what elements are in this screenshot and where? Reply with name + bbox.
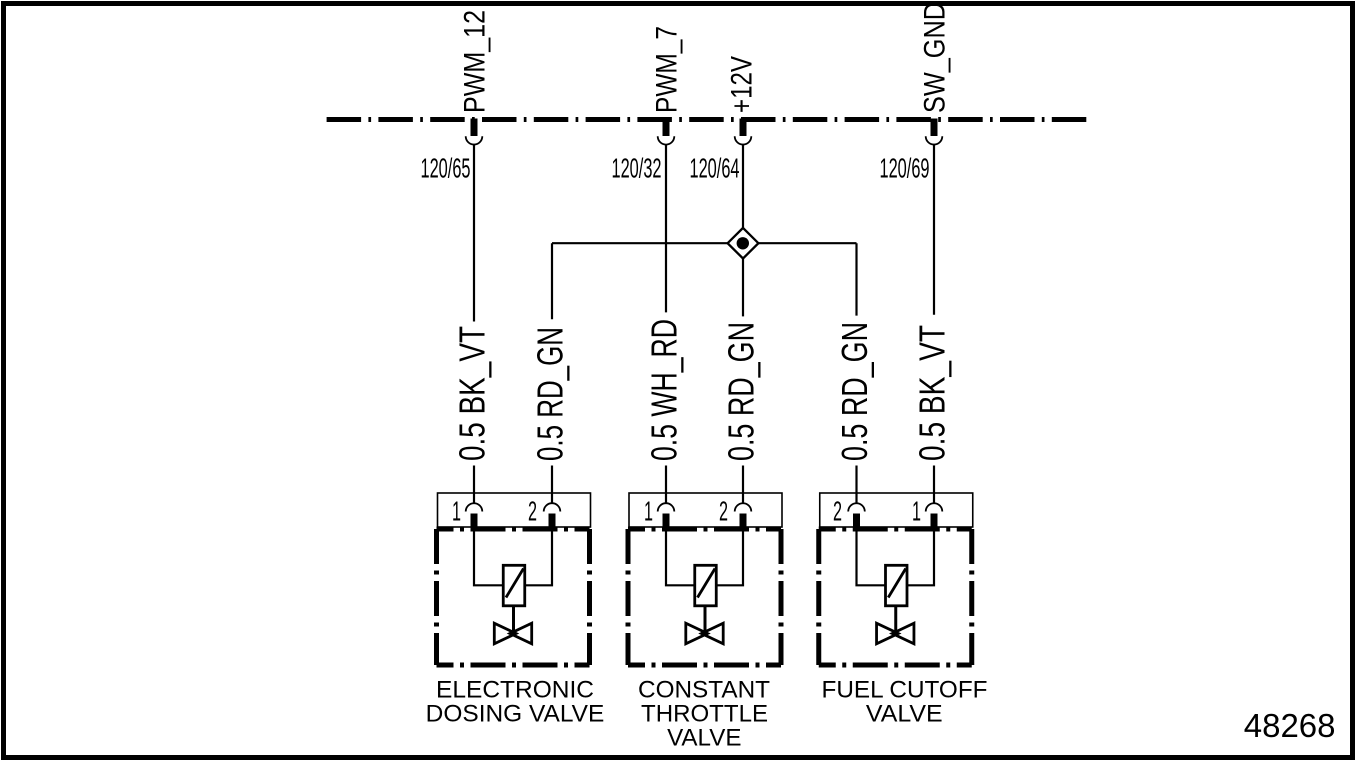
valve 2 pin 2 socket and blade	[735, 503, 752, 531]
valve 3 solenoid coil	[886, 565, 908, 606]
wire W4 +12V upper segment to junction	[742, 145, 744, 228]
valve 3 pin 1 socket and blade	[926, 503, 943, 531]
ECU connector pin 120/65 (blade and socket)	[466, 119, 483, 145]
wire W3 PWM_7 upper segment	[665, 145, 667, 313]
valve 1 solenoid coil	[503, 565, 525, 606]
node SW_GND label	[919, 2, 952, 113]
wire W4 label 0.5 RD_GN	[721, 322, 762, 461]
valve 1 pin 2 socket and blade	[544, 503, 561, 531]
valve 2 stem	[704, 606, 707, 634]
branch wire left from junction to W2	[552, 242, 728, 244]
svg-text:VALVE: VALVE	[667, 725, 741, 752]
valve 2 solenoid coil	[695, 565, 717, 606]
valve 3 butterfly valve symbol	[877, 623, 914, 644]
wire W2 lower segment	[551, 466, 553, 504]
valve 3 pin 2 socket and blade	[848, 503, 865, 531]
svg-text:+12V: +12V	[726, 56, 759, 113]
valve 3 internal wire pin1 to coil	[907, 531, 934, 585]
svg-text:1: 1	[912, 496, 921, 527]
branch wire right from junction to W5	[758, 242, 856, 244]
wire W6 label 0.5 BK_VT	[912, 325, 953, 461]
valve 1 pin 1 label	[452, 496, 461, 527]
wire W5 branch vertical upper segment	[855, 243, 857, 315]
valve 2 butterfly valve symbol	[686, 623, 723, 644]
valve 2 pin 2 label	[719, 496, 728, 527]
svg-text:120/64: 120/64	[690, 153, 740, 184]
valve 1 butterfly valve symbol	[494, 623, 531, 644]
valve 3 internal wire pin2 to coil	[857, 531, 886, 585]
valve 3 caption	[822, 677, 988, 728]
valve 2 pin 1 socket and blade	[658, 503, 675, 531]
valve 1 pin 1 socket and blade	[466, 503, 483, 531]
wire W3 lower segment	[665, 466, 667, 504]
valve 2 caption	[638, 677, 770, 752]
valve 1 stem	[512, 606, 515, 634]
valve 2 pin 1 label	[644, 496, 653, 527]
ECU connector pin 120/32 (blade and socket)	[658, 119, 675, 145]
svg-text:PWM_7: PWM_7	[651, 26, 684, 113]
wire W1 label 0.5 BK_VT	[452, 326, 493, 461]
valve 2 internal wire pin2 to coil	[716, 531, 743, 585]
pin label 120/64	[690, 153, 740, 184]
ECU connector pin 120/69 (blade and socket)	[926, 119, 943, 145]
svg-text:2: 2	[528, 496, 537, 527]
svg-text:0.5 BK_VT: 0.5 BK_VT	[912, 325, 953, 461]
svg-text:FUEL CUTOFF: FUEL CUTOFF	[822, 677, 988, 704]
svg-text:2: 2	[719, 496, 728, 527]
valve 1 dash-dot enclosure box	[437, 529, 590, 665]
wire W4 lower segment	[742, 466, 744, 504]
pin label 120/69	[880, 153, 930, 184]
node +12V label	[726, 56, 759, 113]
wire W5 lower segment	[855, 466, 857, 504]
ECU module boundary dash-dot line	[327, 117, 1087, 122]
node PWM_7 label	[651, 26, 684, 113]
svg-text:VALVE: VALVE	[866, 701, 943, 728]
wire W2 label 0.5 RD_GN	[530, 327, 571, 461]
wire W6 SW_GND upper segment	[933, 145, 935, 315]
node PWM_12 label	[459, 10, 492, 113]
svg-text:2: 2	[833, 496, 842, 527]
valve 1 connector strip	[438, 493, 591, 527]
svg-text:0.5 RD_GN: 0.5 RD_GN	[834, 322, 875, 461]
valve 3 pin 1 label	[912, 496, 921, 527]
figure number 48268	[1244, 707, 1336, 744]
valve 1 caption	[426, 677, 605, 728]
svg-text:0.5 RD_GN: 0.5 RD_GN	[530, 327, 571, 461]
valve 1 internal wire pin2 to coil	[525, 531, 552, 585]
valve 3 stem	[894, 606, 897, 634]
wire W1 PWM_12 upper segment	[473, 145, 475, 322]
svg-text:0.5 WH_RD: 0.5 WH_RD	[644, 319, 685, 461]
ECU connector pin 120/64 (blade and socket)	[735, 119, 752, 145]
svg-text:1: 1	[644, 496, 653, 527]
wire W4 below junction	[742, 259, 744, 317]
valve 2 internal wire pin1 to coil	[666, 531, 695, 585]
valve 1 pin 2 label	[528, 496, 537, 527]
svg-text:120/32: 120/32	[612, 153, 662, 184]
svg-text:PWM_12: PWM_12	[459, 10, 492, 113]
wire W1 lower segment	[473, 466, 475, 504]
svg-text:SW_GND: SW_GND	[919, 2, 952, 113]
valve 3 connector strip	[820, 493, 973, 527]
svg-text:DOSING VALVE: DOSING VALVE	[426, 701, 605, 728]
wire W6 lower segment	[933, 466, 935, 504]
svg-text:1: 1	[452, 496, 461, 527]
svg-text:120/65: 120/65	[421, 153, 471, 184]
valve 2 connector strip	[629, 493, 782, 527]
wire W5 label 0.5 RD_GN	[834, 322, 875, 461]
svg-text:120/69: 120/69	[880, 153, 930, 184]
wire W3 label 0.5 WH_RD	[644, 319, 685, 461]
svg-text:0.5 RD_GN: 0.5 RD_GN	[721, 322, 762, 461]
valve 1 internal wire pin1 to coil	[474, 531, 503, 585]
splice junction diamond	[728, 228, 759, 259]
valve 2 dash-dot enclosure box	[628, 529, 781, 665]
pin label 120/65	[421, 153, 471, 184]
valve 3 pin 2 label	[833, 496, 842, 527]
svg-text:CONSTANT: CONSTANT	[638, 677, 770, 704]
svg-text:0.5 BK_VT: 0.5 BK_VT	[452, 326, 493, 461]
valve 3 dash-dot enclosure box	[819, 529, 972, 665]
svg-text:48268: 48268	[1244, 707, 1336, 744]
svg-text:THROTTLE: THROTTLE	[641, 701, 768, 728]
pin label 120/32	[612, 153, 662, 184]
wire W2 branch vertical upper segment	[551, 243, 553, 319]
svg-text:ELECTRONIC: ELECTRONIC	[436, 677, 594, 704]
